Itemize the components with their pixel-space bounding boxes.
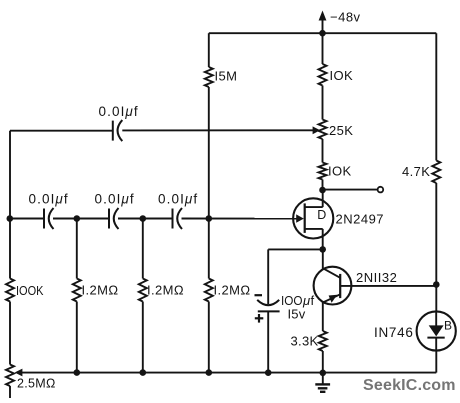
wire 3.3K to bus bbox=[322, 351, 324, 373]
wire 15M branch lower bbox=[208, 87, 210, 219]
wire left column mid bbox=[9, 219, 11, 279]
resistor 10K upper bbox=[319, 64, 354, 86]
potentiometer 25K bbox=[319, 120, 354, 140]
wire left column lower bbox=[9, 302, 11, 365]
node row2 junction 3 bbox=[140, 215, 147, 222]
zener diode 1N746 bbox=[374, 311, 456, 350]
wire row1 left segment bbox=[10, 130, 113, 132]
capacitor 0.01uf fourth bbox=[158, 192, 198, 230]
capacitor 0.01uf second bbox=[29, 192, 69, 230]
wire cap branch vertical bbox=[267, 249, 269, 304]
resistor 4.7K bbox=[432, 161, 440, 184]
wire row2 segment 2 bbox=[53, 218, 109, 220]
transistor 2N1132 Q1 PNP bbox=[314, 249, 398, 331]
resistor 100K bbox=[6, 279, 44, 302]
wire bottom bus bbox=[22, 372, 437, 374]
svg-text:I.2MΩ: I.2MΩ bbox=[82, 283, 119, 298]
wire row2 segment 1 bbox=[10, 218, 44, 220]
node -48v junction bbox=[319, 30, 326, 37]
svg-text:IN746: IN746 bbox=[374, 325, 414, 340]
svg-text:D: D bbox=[317, 208, 326, 222]
svg-text:IOK: IOK bbox=[328, 164, 352, 179]
svg-text:0.0Iμf: 0.0Iμf bbox=[95, 192, 135, 207]
wire left column upper bbox=[9, 131, 11, 219]
capacitor 0.01uf third bbox=[95, 192, 135, 230]
svg-text:2N2497: 2N2497 bbox=[336, 212, 385, 227]
wire 10K to drain node bbox=[322, 180, 324, 191]
terminal open circle bbox=[378, 187, 384, 193]
svg-text:I5M: I5M bbox=[215, 69, 238, 84]
wire source to cap branch bbox=[268, 248, 323, 250]
potentiometer 2.5M bbox=[6, 365, 56, 399]
wire right rail to zener bbox=[435, 285, 437, 313]
svg-text:25K: 25K bbox=[329, 123, 353, 138]
wire right rail lower bbox=[435, 351, 437, 373]
node drain junction bbox=[319, 187, 326, 194]
wire 1.2M column 3 upper bbox=[208, 219, 210, 279]
node bus junction 5 bbox=[320, 370, 327, 377]
svg-text:SeekIC.com: SeekIC.com bbox=[363, 377, 456, 394]
resistor 1.2M second bbox=[139, 279, 184, 302]
wire base to right rail bbox=[340, 285, 436, 287]
node source junction bbox=[319, 246, 326, 253]
wire right rail upper bbox=[435, 33, 437, 160]
svg-text:3.3K: 3.3K bbox=[291, 334, 319, 349]
wire 1.2M column 3 lower bbox=[208, 302, 210, 373]
resistor 10K lower bbox=[319, 163, 352, 180]
wire row2 segment 3 bbox=[118, 218, 173, 220]
svg-text:I5v: I5v bbox=[288, 307, 306, 322]
resistor 3.3K bbox=[319, 331, 327, 351]
wire 1.2M column2 lower bbox=[142, 302, 144, 373]
wire 25K-10K bbox=[322, 139, 324, 163]
wire output terminal lead bbox=[323, 189, 378, 191]
wire 15M branch upper bbox=[208, 33, 210, 67]
MOSFET 2N2497 U1 bbox=[293, 190, 384, 249]
wire top bus bbox=[209, 32, 436, 34]
node bus junction 3 bbox=[206, 369, 213, 376]
resistor 1.2M first bbox=[73, 279, 119, 302]
node bus junction 2 bbox=[140, 369, 147, 376]
svg-text:2.5MΩ: 2.5MΩ bbox=[17, 377, 56, 391]
node bus junction 4 bbox=[265, 369, 272, 376]
wire 10K-25K bbox=[322, 86, 324, 120]
wire row2 gate lead bbox=[182, 218, 298, 220]
wire 1.2M column2 upper bbox=[142, 219, 144, 279]
resistor 1.2M third bbox=[205, 279, 251, 302]
wire 10K upper lead bbox=[322, 33, 324, 64]
svg-text:0.0Iμf: 0.0Iμf bbox=[29, 192, 69, 207]
resistor 15M bbox=[205, 67, 238, 87]
svg-text:IOOK: IOOK bbox=[16, 283, 44, 298]
svg-text:f: f bbox=[311, 293, 315, 308]
wire 1.2M column1 upper bbox=[76, 219, 78, 279]
node row2 junction 4 bbox=[206, 215, 213, 222]
wire 1.2M column1 lower bbox=[76, 302, 78, 373]
svg-text:IOK: IOK bbox=[330, 68, 354, 83]
node bus junction 1 bbox=[74, 369, 81, 376]
node row2 junction 2 bbox=[74, 215, 81, 222]
svg-text:4.7K: 4.7K bbox=[402, 164, 430, 179]
electrolytic capacitor 100uf 15v bbox=[255, 293, 315, 323]
wire cap to bus bbox=[267, 311, 269, 372]
ground bbox=[315, 373, 330, 392]
svg-text:I.2MΩ: I.2MΩ bbox=[147, 283, 184, 298]
svg-text:I.2MΩ: I.2MΩ bbox=[214, 283, 251, 298]
svg-text:0.0Iμf: 0.0Iμf bbox=[158, 192, 198, 207]
node row2 junction 1 bbox=[7, 215, 14, 222]
svg-text:2NII32: 2NII32 bbox=[356, 270, 397, 285]
svg-text:−48v: −48v bbox=[330, 10, 361, 25]
supply -48v arrow bbox=[319, 10, 361, 34]
node base junction bbox=[433, 281, 440, 288]
wire right rail middle bbox=[435, 183, 437, 285]
svg-text:0.0Iμf: 0.0Iμf bbox=[99, 104, 139, 119]
capacitor 0.01uf first bbox=[99, 104, 139, 141]
svg-text:B: B bbox=[444, 319, 452, 333]
wire row1 to 25K wiper arrow bbox=[122, 126, 320, 134]
